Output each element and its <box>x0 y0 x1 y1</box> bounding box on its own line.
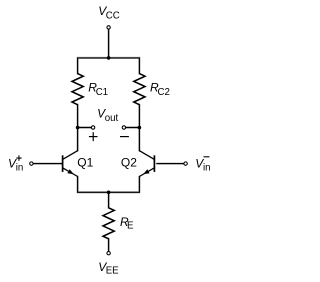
svg-text:EE: EE <box>106 266 119 277</box>
polarity plus <box>89 132 98 141</box>
node collector Q2 junction <box>138 126 142 130</box>
label VCC <box>98 4 120 21</box>
resistor RC1 <box>72 74 83 105</box>
svg-text:C2: C2 <box>158 87 170 98</box>
wire left branch lower lead (RC1 to collector corner) <box>77 105 79 151</box>
label RC2 <box>150 81 170 98</box>
wire soft underlay <box>34 30 184 252</box>
resistor RE <box>103 208 114 239</box>
wire vout- stub <box>126 127 140 129</box>
transistor Q1 <box>63 151 78 177</box>
wire right branch lower lead (RC2 to collector corner) <box>138 105 140 151</box>
terminal vout+ <box>91 126 94 129</box>
wire RE bottom lead <box>108 239 110 251</box>
wire Q2 base lead <box>157 163 184 165</box>
terminal vout- <box>122 126 125 129</box>
label VEE <box>98 260 119 277</box>
wire Q1 base lead <box>34 163 63 165</box>
terminal VCC <box>107 26 110 29</box>
transistor Q2 <box>139 151 154 177</box>
wire vout+ stub <box>78 127 92 129</box>
svg-text:E: E <box>127 220 134 231</box>
wire VCC lead <box>108 30 110 58</box>
terminal vin- <box>184 162 187 165</box>
label RE <box>120 215 134 231</box>
polarity minus <box>120 136 129 138</box>
svg-text:in: in <box>16 163 24 174</box>
node collector Q1 junction <box>76 126 80 130</box>
svg-text:in: in <box>203 163 211 174</box>
wire Q2 emitter lead <box>138 177 140 193</box>
wire top rail <box>78 57 140 59</box>
wire right branch upper lead <box>138 58 140 74</box>
wire bottom rail <box>78 191 140 193</box>
label Vin- <box>195 157 210 174</box>
label Vout <box>97 106 118 124</box>
wire RE top lead <box>108 192 110 208</box>
terminal vin+ <box>30 162 33 165</box>
wire Q1 emitter lead <box>77 177 79 193</box>
label Vin+ <box>8 155 23 173</box>
svg-text:C1: C1 <box>96 87 108 98</box>
node VCC junction <box>107 56 111 60</box>
terminal VEE <box>107 252 110 255</box>
svg-text:out: out <box>105 113 119 124</box>
wire left branch upper lead <box>77 58 79 74</box>
svg-text:Q1: Q1 <box>77 156 93 170</box>
label RC1 <box>88 81 108 98</box>
svg-text:Q2: Q2 <box>121 156 137 170</box>
svg-text:CC: CC <box>106 10 120 21</box>
resistor RC2 <box>134 74 145 105</box>
node emitter junction <box>107 191 111 195</box>
